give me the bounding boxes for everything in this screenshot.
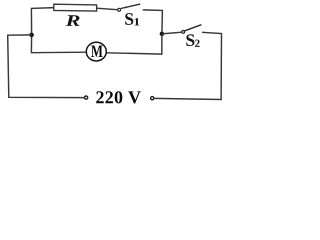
label R: [66, 15, 80, 26]
wire: node B down and left to motor: [107, 34, 162, 54]
wire: top-left corner segment into resistor: [31, 8, 54, 35]
wire: right terminal along bottom, up right side to switch S2: [154, 32, 222, 99]
right supply terminal: [151, 97, 154, 100]
wire: node A left, down left side, along bottom to left terminal: [8, 35, 85, 98]
motor M (circle symbol): [86, 42, 106, 61]
node A (junction dot): [29, 33, 34, 38]
wire: node B to switch S2: [162, 32, 182, 34]
label S2: [186, 34, 194, 46]
resistor R (rectangle symbol): [54, 4, 97, 11]
switch S2 pivot circle: [182, 31, 185, 34]
label S1: [125, 13, 133, 25]
switch S1 blade (open): [121, 4, 140, 8]
label M: [91, 45, 102, 57]
switch S1 pivot circle: [118, 8, 121, 11]
wire: resistor to switch S1: [97, 8, 118, 10]
node B (junction dot): [160, 32, 165, 37]
wire: S1 to right branch corner, down to node B: [143, 10, 163, 34]
wire: motor left to node A: [31, 35, 86, 53]
left supply terminal: [85, 96, 88, 99]
label 220 V: [96, 91, 141, 103]
switch S2 blade (open): [185, 25, 202, 31]
